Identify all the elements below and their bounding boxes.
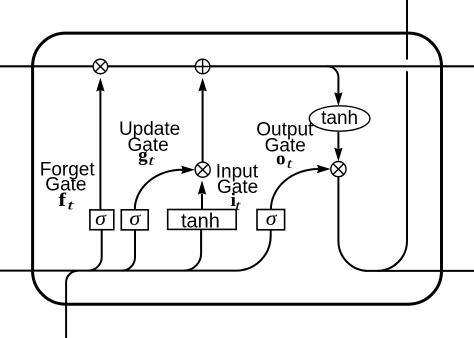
tanh box (candidate activation) bbox=[168, 210, 237, 233]
multiply node D (output gate product) bbox=[331, 162, 346, 177]
wire: input line h/x (horizontal lower) with curve up into sigma3 bbox=[0, 230, 271, 271]
wire: sigma2 output curving right to multiply node C bbox=[135, 170, 183, 210]
svg-text:tanh: tanh bbox=[181, 210, 220, 232]
wire: cell state line c (horizontal, full width) bbox=[0, 65, 474, 67]
wire: tanh box output up to multiply node C bbox=[201, 194, 203, 210]
sigma box 1 (forget gate sigma) bbox=[90, 208, 114, 230]
arrowhead into add node B bbox=[198, 78, 206, 92]
wire: h_t up line, upper part (gap at cell line crossing) bbox=[406, 0, 408, 60]
label: Input Gate i_t bbox=[216, 162, 259, 215]
add node B (cell state sum) bbox=[195, 59, 210, 74]
svg-text:σ: σ bbox=[95, 208, 107, 230]
tanh ellipse (cell state activation) bbox=[309, 106, 370, 131]
sigma box 2 (update gate sigma) bbox=[121, 208, 148, 230]
arrowhead into multiply node C from below bbox=[198, 180, 206, 194]
arrowhead into multiply node C from left bbox=[181, 166, 195, 174]
cell border (rounded rectangle) bbox=[33, 33, 442, 304]
svg-text:tanh: tanh bbox=[321, 108, 358, 129]
svg-text:σ: σ bbox=[129, 208, 141, 230]
wire: branch up into tanh box bbox=[184, 230, 201, 271]
arrowhead into multiply node D from above bbox=[334, 148, 342, 162]
svg-text:σ: σ bbox=[266, 208, 278, 230]
wire: multiply node D output down, U-turn, right to edge (h_t out) bbox=[338, 177, 474, 271]
wire: branch up from U-turn to top edge (h_t up), lower part bbox=[377, 71, 407, 271]
svg-text:o: o bbox=[276, 148, 286, 169]
arrowhead into multiply node A bbox=[96, 78, 104, 92]
sigma box 3 (output gate sigma) bbox=[257, 208, 285, 230]
multiply node A (forget gate product) bbox=[93, 59, 108, 74]
wire: sigma1 output up to multiply node A bbox=[99, 91, 101, 211]
label: Output Gate o_t bbox=[256, 120, 314, 173]
wire: branch up into sigma1 (forget gate) bbox=[88, 230, 102, 271]
label: Forget Gate f_t bbox=[40, 159, 96, 213]
multiply node C (input x update product) bbox=[195, 162, 210, 177]
wire: branch from cell line down into tanh ellipse bbox=[327, 66, 338, 93]
wire: branch up into sigma2 (update gate) bbox=[122, 230, 135, 271]
wire: sigma3 output curving right to multiply node D bbox=[271, 169, 319, 210]
arrowhead into tanh ellipse bbox=[334, 92, 342, 106]
svg-text:g: g bbox=[138, 145, 148, 166]
label: Update Gate g_t bbox=[119, 119, 180, 169]
arrowhead into multiply node D from left bbox=[317, 165, 331, 173]
svg-text:f: f bbox=[58, 190, 66, 211]
svg-text:Gate: Gate bbox=[217, 177, 258, 198]
wire: tanh ellipse output down to multiply node D bbox=[337, 132, 339, 149]
wire: x_t input from bottom, curving right into input line bbox=[66, 271, 78, 338]
wire: multiply node C up to add node B bbox=[202, 91, 204, 163]
